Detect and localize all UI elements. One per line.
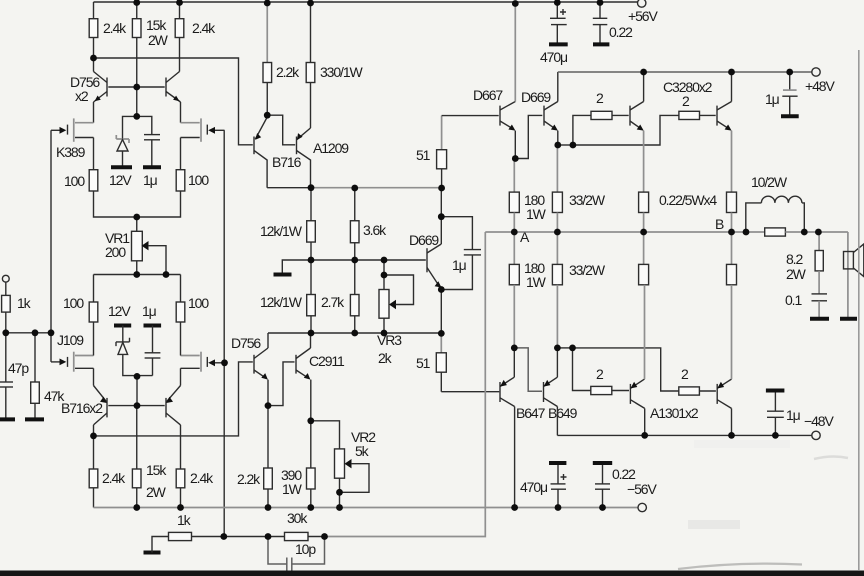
svg-text:1μ: 1μ (143, 172, 158, 188)
svg-text:1μ: 1μ (452, 257, 467, 273)
capacitor 10p (across 30k) (268, 537, 325, 571)
svg-text:100: 100 (63, 295, 84, 311)
wire 330 to A1209 emitter (310, 83, 312, 129)
transistor B716 (right of x2 pair) (166, 386, 181, 425)
-56V rail (94, 507, 638, 509)
transistor C2911 (296, 348, 311, 380)
+48V rail (558, 71, 812, 73)
ground (47k) (25, 417, 44, 421)
label 2.4k (102, 470, 126, 486)
label 8.2 2W (786, 251, 807, 282)
label 100 (188, 295, 209, 311)
label 470u (540, 49, 568, 65)
resistor 51 (lower) (436, 333, 446, 391)
svg-text:2.7k: 2.7k (321, 294, 345, 310)
svg-text:2: 2 (682, 93, 690, 109)
label 0.22 (609, 24, 633, 40)
transistor D669 (driver) (544, 102, 558, 131)
wire B647 collector to -56V rail (514, 407, 516, 508)
potentiometer VR2 5k (335, 449, 370, 508)
JFET J109 (left) (51, 352, 94, 372)
ground (1u upper) (143, 165, 161, 169)
resistor 8.2 2W (zobel) (815, 232, 823, 294)
svg-text:D669: D669 (521, 89, 551, 105)
resistor 33/2W (lower) (552, 264, 562, 284)
label 100 (63, 295, 84, 311)
wire D669 emitter down (557, 131, 559, 145)
label 2.4k (190, 470, 214, 486)
svg-text:12V: 12V (108, 303, 131, 319)
wire node rail to speaker (818, 231, 848, 233)
ground tap at 12k midpoint (282, 260, 311, 274)
wire 390 column (310, 421, 312, 468)
terminal -56V (638, 503, 646, 511)
label 180 1W (524, 192, 547, 222)
resistor 1k (feedback shunt) (152, 532, 268, 552)
wire B716 right collector down (180, 425, 182, 469)
transistor D756 (2nd stage) (254, 348, 268, 380)
label 0.1 (785, 292, 802, 308)
ground (12k midpoint) (274, 273, 292, 277)
ground (47p) (0, 417, 15, 421)
wire inverting input line (gate of right JFETs) (223, 130, 225, 536)
svg-text:330/1W: 330/1W (320, 64, 364, 80)
wire VR1 bottom rail (94, 274, 181, 276)
label 2.4k (192, 20, 216, 36)
svg-text:12k/1W: 12k/1W (260, 294, 303, 310)
resistor 100 (lower right) (176, 302, 185, 322)
wire 15k column down to base node (136, 38, 138, 88)
ground (zobel) (810, 317, 829, 321)
resistor 180 1W (upper) (509, 192, 519, 212)
label 47p (8, 360, 29, 376)
resistor 2.2k (VAS emitter upper) (263, 63, 272, 83)
wire A1301 no1 collector down (644, 408, 646, 435)
resistor 100 (lower left) (89, 302, 98, 322)
wire C2911 collector up (310, 333, 312, 348)
wire C2911 emitter down (310, 380, 312, 421)
wire 330 top feed (310, 3, 312, 63)
transistor D756 (left of x2 pair) (94, 72, 108, 103)
svg-text:2W: 2W (148, 32, 169, 48)
label 1u (upper) (143, 172, 158, 188)
transistor D667 (pre-driver) (500, 102, 515, 131)
resistor 0.22/5W no1 (639, 192, 649, 212)
transistor A1209 (297, 128, 311, 188)
label 12k/1W (260, 294, 303, 310)
capacitor 0.1 (zobel) (812, 294, 828, 319)
label 330/1W (320, 64, 364, 80)
wire K389 right source to 100R (180, 138, 182, 170)
label 2 (681, 366, 689, 382)
wire 2.2k to emitter node (266, 83, 268, 116)
bottom bar (1u +48V) (781, 114, 799, 118)
resistor 0.22/5W no2 (727, 192, 737, 212)
wire 2.4k top-left feed (93, 2, 95, 19)
resistor 51 (upper) (437, 116, 447, 188)
wire 2.4k top-right feed (179, 2, 181, 19)
wire zener tee to B716x2 bases (136, 376, 138, 406)
+56V supply rail (94, 1, 638, 3)
label 47k (44, 388, 65, 404)
svg-text:2: 2 (596, 90, 604, 106)
resistor 2.7k (350, 295, 359, 316)
label 0.22 (612, 466, 636, 482)
label 100 (188, 172, 209, 188)
resistor 12k/1W (upper) (307, 221, 316, 242)
node B (715, 216, 724, 232)
svg-text:VR3: VR3 (377, 332, 402, 348)
svg-text:12V: 12V (109, 172, 132, 188)
svg-text:1W: 1W (526, 206, 547, 222)
svg-text:A1301x2: A1301x2 (650, 405, 699, 421)
label B716x2 (61, 400, 103, 416)
svg-text:51: 51 (416, 355, 431, 371)
resistor 2.2k (2nd stage) (264, 468, 273, 508)
resistor 15k 2W (tail) (132, 19, 141, 38)
wire sources to VR1 top rail (94, 191, 181, 217)
svg-text:2: 2 (596, 366, 604, 382)
label C2911 (309, 353, 345, 369)
wire A1301 no2 emitter up (731, 285, 733, 379)
transistor D669 (VAS) (427, 244, 442, 288)
resistor 100 (upper left source) (89, 170, 98, 191)
wire 51 top to D667 base (442, 115, 499, 117)
inductor 10/2W (746, 196, 805, 232)
potentiometer VR3 2k (379, 260, 414, 333)
label 1k (177, 512, 192, 528)
label 30k (287, 510, 308, 526)
resistor 2 (lower first) (591, 386, 629, 394)
wire A1301 no2 base run (573, 348, 679, 391)
svg-text:2.2k: 2.2k (237, 471, 261, 487)
svg-text:15k: 15k (146, 462, 167, 478)
capacitor 470u (-56V) (549, 463, 567, 508)
svg-text:200: 200 (105, 244, 126, 260)
terminal +56V (638, 0, 646, 7)
top bar of lower 12V zener (114, 324, 131, 328)
wire joined bases of D756 pair (108, 86, 164, 88)
wire to B647 base (441, 391, 499, 393)
label 390 1W (281, 467, 303, 497)
wire VAS collector column (440, 188, 442, 244)
resistor 15k 2W (lower) (132, 469, 141, 508)
label 15k 2W (146, 462, 167, 500)
wire VR1 top lead (136, 217, 138, 232)
-48V rail (557, 434, 811, 436)
svg-text:1μ: 1μ (786, 407, 801, 423)
JFET K389 (right, mirrored) (181, 118, 225, 141)
capacitor 1u (upper bias) (137, 116, 160, 167)
wire C3280 no2 base run (573, 115, 679, 145)
capacitor 470u (+56V) (550, 2, 567, 44)
svg-text:1μ: 1μ (142, 303, 157, 319)
svg-text:−56V: −56V (627, 481, 657, 497)
wire VAS collector node rail (267, 187, 442, 189)
svg-text:B649: B649 (548, 405, 578, 421)
wire 3.6k feed (354, 188, 356, 221)
input terminal (2, 275, 9, 282)
potentiometer VR1 200 (132, 231, 167, 274)
resistor 0.22/5W no4 (727, 264, 737, 284)
svg-text:470μ: 470μ (520, 479, 548, 495)
resistor 3.6k (350, 221, 359, 243)
svg-text:12k/1W: 12k/1W (260, 223, 303, 239)
capacitor 1u (VAS compensation) (441, 217, 481, 290)
terminal -48V (812, 431, 820, 439)
transistor B716 (left of x2 pair) (94, 386, 108, 425)
label 2.7k (321, 294, 345, 310)
wire feedback rail to D756 base (94, 362, 253, 436)
svg-text:0.22: 0.22 (612, 466, 636, 482)
resistor 30k (feedback) (268, 532, 325, 540)
label 15k 2W (146, 17, 169, 48)
svg-text:+48V: +48V (805, 78, 835, 94)
label 12V (upper) (109, 172, 132, 188)
label K389 (56, 144, 86, 160)
label 2.4k (103, 20, 127, 36)
resistor 47k (31, 333, 40, 420)
wire driver node pair (lower) (557, 347, 572, 349)
wire J109 left drain up (93, 322, 95, 356)
top bar of lower 1u cap (144, 324, 162, 328)
zener diode 12V (upper) (116, 116, 136, 167)
svg-text:2.4k: 2.4k (192, 20, 216, 36)
label 100 (64, 173, 85, 189)
label 2 (596, 366, 604, 382)
svg-text:1k: 1k (177, 512, 192, 528)
wire left load to rail node (93, 38, 95, 72)
svg-text:33/2W: 33/2W (569, 192, 606, 208)
label 51 (416, 355, 431, 371)
capacitor 1u (lower bias) (145, 326, 161, 376)
wire D667 collector to +56V (514, 4, 516, 102)
svg-text:5k: 5k (355, 443, 370, 459)
wire to VR2 top (311, 421, 340, 449)
svg-text:100: 100 (188, 295, 209, 311)
capacitor 0.22 (-56V) (593, 463, 612, 508)
wire C3280 no2 emitter to 0.22 (731, 131, 733, 193)
label 2 (682, 93, 690, 109)
svg-text:1k: 1k (17, 295, 32, 311)
svg-text:0.1: 0.1 (785, 292, 802, 308)
transistor B716 (cascode) (254, 117, 267, 188)
label 10p (295, 541, 316, 557)
wires node rail to lower resistors (514, 232, 731, 264)
svg-text:K389: K389 (56, 144, 86, 160)
svg-text:+56V: +56V (628, 8, 658, 24)
resistor 180 1W (lower) (509, 264, 519, 284)
svg-text:B: B (715, 216, 724, 232)
svg-text:100: 100 (64, 173, 85, 189)
wire bias node to D669 base (311, 259, 426, 261)
wire D667 emitter node (514, 131, 516, 159)
wire C3280 no2 collector up (731, 72, 733, 102)
resistor 2.4k (input stage right load) (175, 19, 184, 38)
svg-text:1W: 1W (526, 274, 547, 290)
wire A1301 no2 collector down (731, 408, 733, 435)
wire D756 collector up to rail (267, 333, 269, 348)
wire input node (6, 332, 51, 334)
wire 2.2k top feed (266, 3, 268, 63)
svg-text:33/2W: 33/2W (569, 262, 606, 278)
wire C3280 no1 base feed (573, 115, 591, 145)
scan smudge (watermark remnant) (678, 440, 848, 569)
label 1u (765, 91, 780, 107)
resistor 0.22/5W no3 (639, 264, 649, 284)
wire emitter node pair (558, 144, 573, 146)
label B647 (516, 405, 546, 421)
wire 12k lower to rail (310, 316, 312, 333)
svg-text:0.22/5Wx4: 0.22/5Wx4 (659, 192, 717, 208)
label C3280x2 (663, 79, 713, 95)
svg-text:2.4k: 2.4k (190, 470, 214, 486)
label D669 (409, 232, 439, 248)
label D667 (473, 87, 503, 103)
capacitor 47p (0, 333, 13, 420)
label -48V (804, 413, 834, 429)
label 1k (17, 295, 32, 311)
svg-text:100: 100 (188, 172, 209, 188)
JFET K389 (left) (51, 118, 94, 141)
ground (0.22 upper) (593, 42, 609, 46)
label 470u (520, 479, 548, 495)
wire left column down to 2.4k (93, 436, 95, 469)
resistor 2 (lower second) (679, 387, 716, 395)
resistor 2.4k (input stage left load) (89, 19, 98, 38)
label B716 (272, 154, 302, 170)
wire input node up to K389 gate (50, 130, 52, 362)
svg-text:C2911: C2911 (309, 353, 345, 369)
svg-text:1μ: 1μ (765, 91, 780, 107)
scan border bottom (0, 571, 864, 576)
label 2.2k (237, 471, 261, 487)
label 1u (lower) (142, 303, 157, 319)
label D756 (231, 335, 261, 351)
svg-text:B716: B716 (272, 154, 302, 170)
label 2.2k (276, 64, 300, 80)
wire emitter rail y333 (268, 332, 441, 334)
label VR2 5k (351, 429, 376, 459)
resistor (parallel with inductor) (746, 228, 818, 236)
junction feedback bottom (220, 489, 342, 540)
label 10/2W (751, 174, 788, 190)
svg-text:2.4k: 2.4k (102, 470, 126, 486)
wire B649 emitter up (556, 348, 558, 377)
wire B649 collector to -48V rail (556, 407, 558, 436)
wire 180 lower to B647 emitter (513, 285, 515, 348)
label 1u (786, 407, 801, 423)
label J109 (57, 332, 84, 348)
junction lower bias (90, 359, 228, 439)
svg-text:2W: 2W (146, 484, 167, 500)
wire input terminal to 1k (5, 282, 7, 295)
svg-text:470μ: 470μ (540, 49, 568, 65)
resistor 1k (input) (2, 295, 11, 312)
wire D756 right emitter to K389 drain (180, 102, 182, 123)
resistor 2.4k (lower right) (176, 469, 185, 508)
wire B649 base jog (514, 348, 542, 391)
wire D669 driver base jog (515, 115, 542, 158)
label 12V (lower) (108, 303, 131, 319)
label 12k/1W (260, 223, 303, 239)
node A (520, 229, 530, 245)
wire J109 left source down (93, 368, 95, 385)
resistor 2 (upper first) (591, 111, 629, 119)
scan border right (858, 50, 860, 570)
transistor B647 (500, 377, 515, 406)
wire A1301 no1 emitter up (644, 285, 646, 379)
speaker (844, 232, 864, 319)
wire D756 left emitter to K389 drain (93, 102, 95, 123)
wire VAS emitter to rail (440, 288, 442, 334)
resistor 100 (upper right source) (176, 170, 185, 191)
resistor 2.4k (lower left) (89, 469, 98, 508)
transistor A1301 no1 (630, 379, 644, 408)
wire 2.4k right column down (179, 38, 181, 72)
wire A1209 base jog (267, 115, 295, 145)
wire K389 left source to 100R (93, 138, 95, 170)
label 2 (596, 90, 604, 106)
wire 2.7k to rail (354, 316, 356, 333)
svg-text:x2: x2 (75, 88, 89, 104)
wire base rail of B716 buffer (94, 58, 253, 145)
wire C2911 base jog (268, 362, 295, 406)
resistor 33/2W (upper) (552, 192, 562, 212)
label VR3 2k (377, 332, 402, 366)
wire J109 right source down (180, 368, 182, 385)
svg-text:1W: 1W (282, 481, 303, 497)
label VR1 200 (105, 230, 130, 260)
label 3.6k (363, 222, 387, 238)
wires upper resistors to node rail (514, 213, 731, 233)
resistor 2 (upper second) (679, 111, 716, 119)
resistor 12k/1W (lower) (307, 295, 316, 316)
svg-text:2W: 2W (786, 266, 807, 282)
wire J109 right drain up (180, 322, 182, 356)
svg-text:D667: D667 (473, 87, 503, 103)
ground (speaker) (840, 317, 857, 321)
wire 33 lower to B649 emitter (556, 285, 558, 348)
wire feedback from node A (325, 232, 486, 537)
svg-text:A1209: A1209 (313, 140, 349, 156)
label 33/2W (569, 192, 606, 208)
svg-text:0.22: 0.22 (609, 24, 633, 40)
label A1209 (313, 140, 349, 156)
wire 2.2k lower column (267, 406, 269, 468)
transistor A1301 no2 (717, 379, 731, 408)
wire D669 emitter to 33R (556, 145, 558, 192)
wire C3280 no1 emitter to 0.22 (643, 131, 645, 193)
JFET J109 (right, mirrored) (181, 352, 225, 372)
capacitor 1u (+48V bypass) (782, 72, 797, 116)
junction input stage (90, 55, 169, 278)
wire C3280 no1 collector up (643, 72, 645, 102)
zener diode 12V (lower) (116, 326, 153, 376)
wire D756 emitter to node (267, 380, 269, 406)
label D669 (521, 89, 551, 105)
terminal +48V (812, 68, 820, 76)
ground (12V zener upper) (111, 165, 132, 169)
wire 3.6k to bias node (354, 243, 356, 295)
svg-text:2: 2 (681, 366, 689, 382)
label -56V (627, 481, 657, 497)
svg-text:10p: 10p (295, 541, 316, 557)
svg-text:30k: 30k (287, 510, 308, 526)
wire 12k junction (310, 242, 312, 295)
svg-text:15k: 15k (146, 17, 167, 33)
wire B716 left collector to feedback rail (93, 425, 95, 436)
